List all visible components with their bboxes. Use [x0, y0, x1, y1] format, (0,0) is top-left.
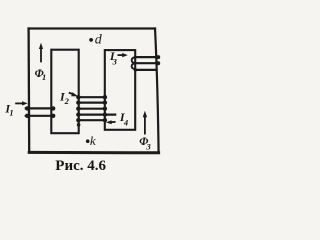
- svg-text:Рис. 4.6: Рис. 4.6: [55, 158, 106, 174]
- svg-text:3: 3: [112, 57, 118, 67]
- svg-text:3: 3: [146, 142, 152, 152]
- svg-text:1: 1: [9, 108, 13, 118]
- svg-text:k: k: [90, 133, 96, 148]
- svg-text:2: 2: [64, 96, 70, 106]
- svg-text:4: 4: [123, 117, 128, 127]
- svg-text:1: 1: [42, 72, 46, 82]
- svg-text:d: d: [95, 33, 103, 48]
